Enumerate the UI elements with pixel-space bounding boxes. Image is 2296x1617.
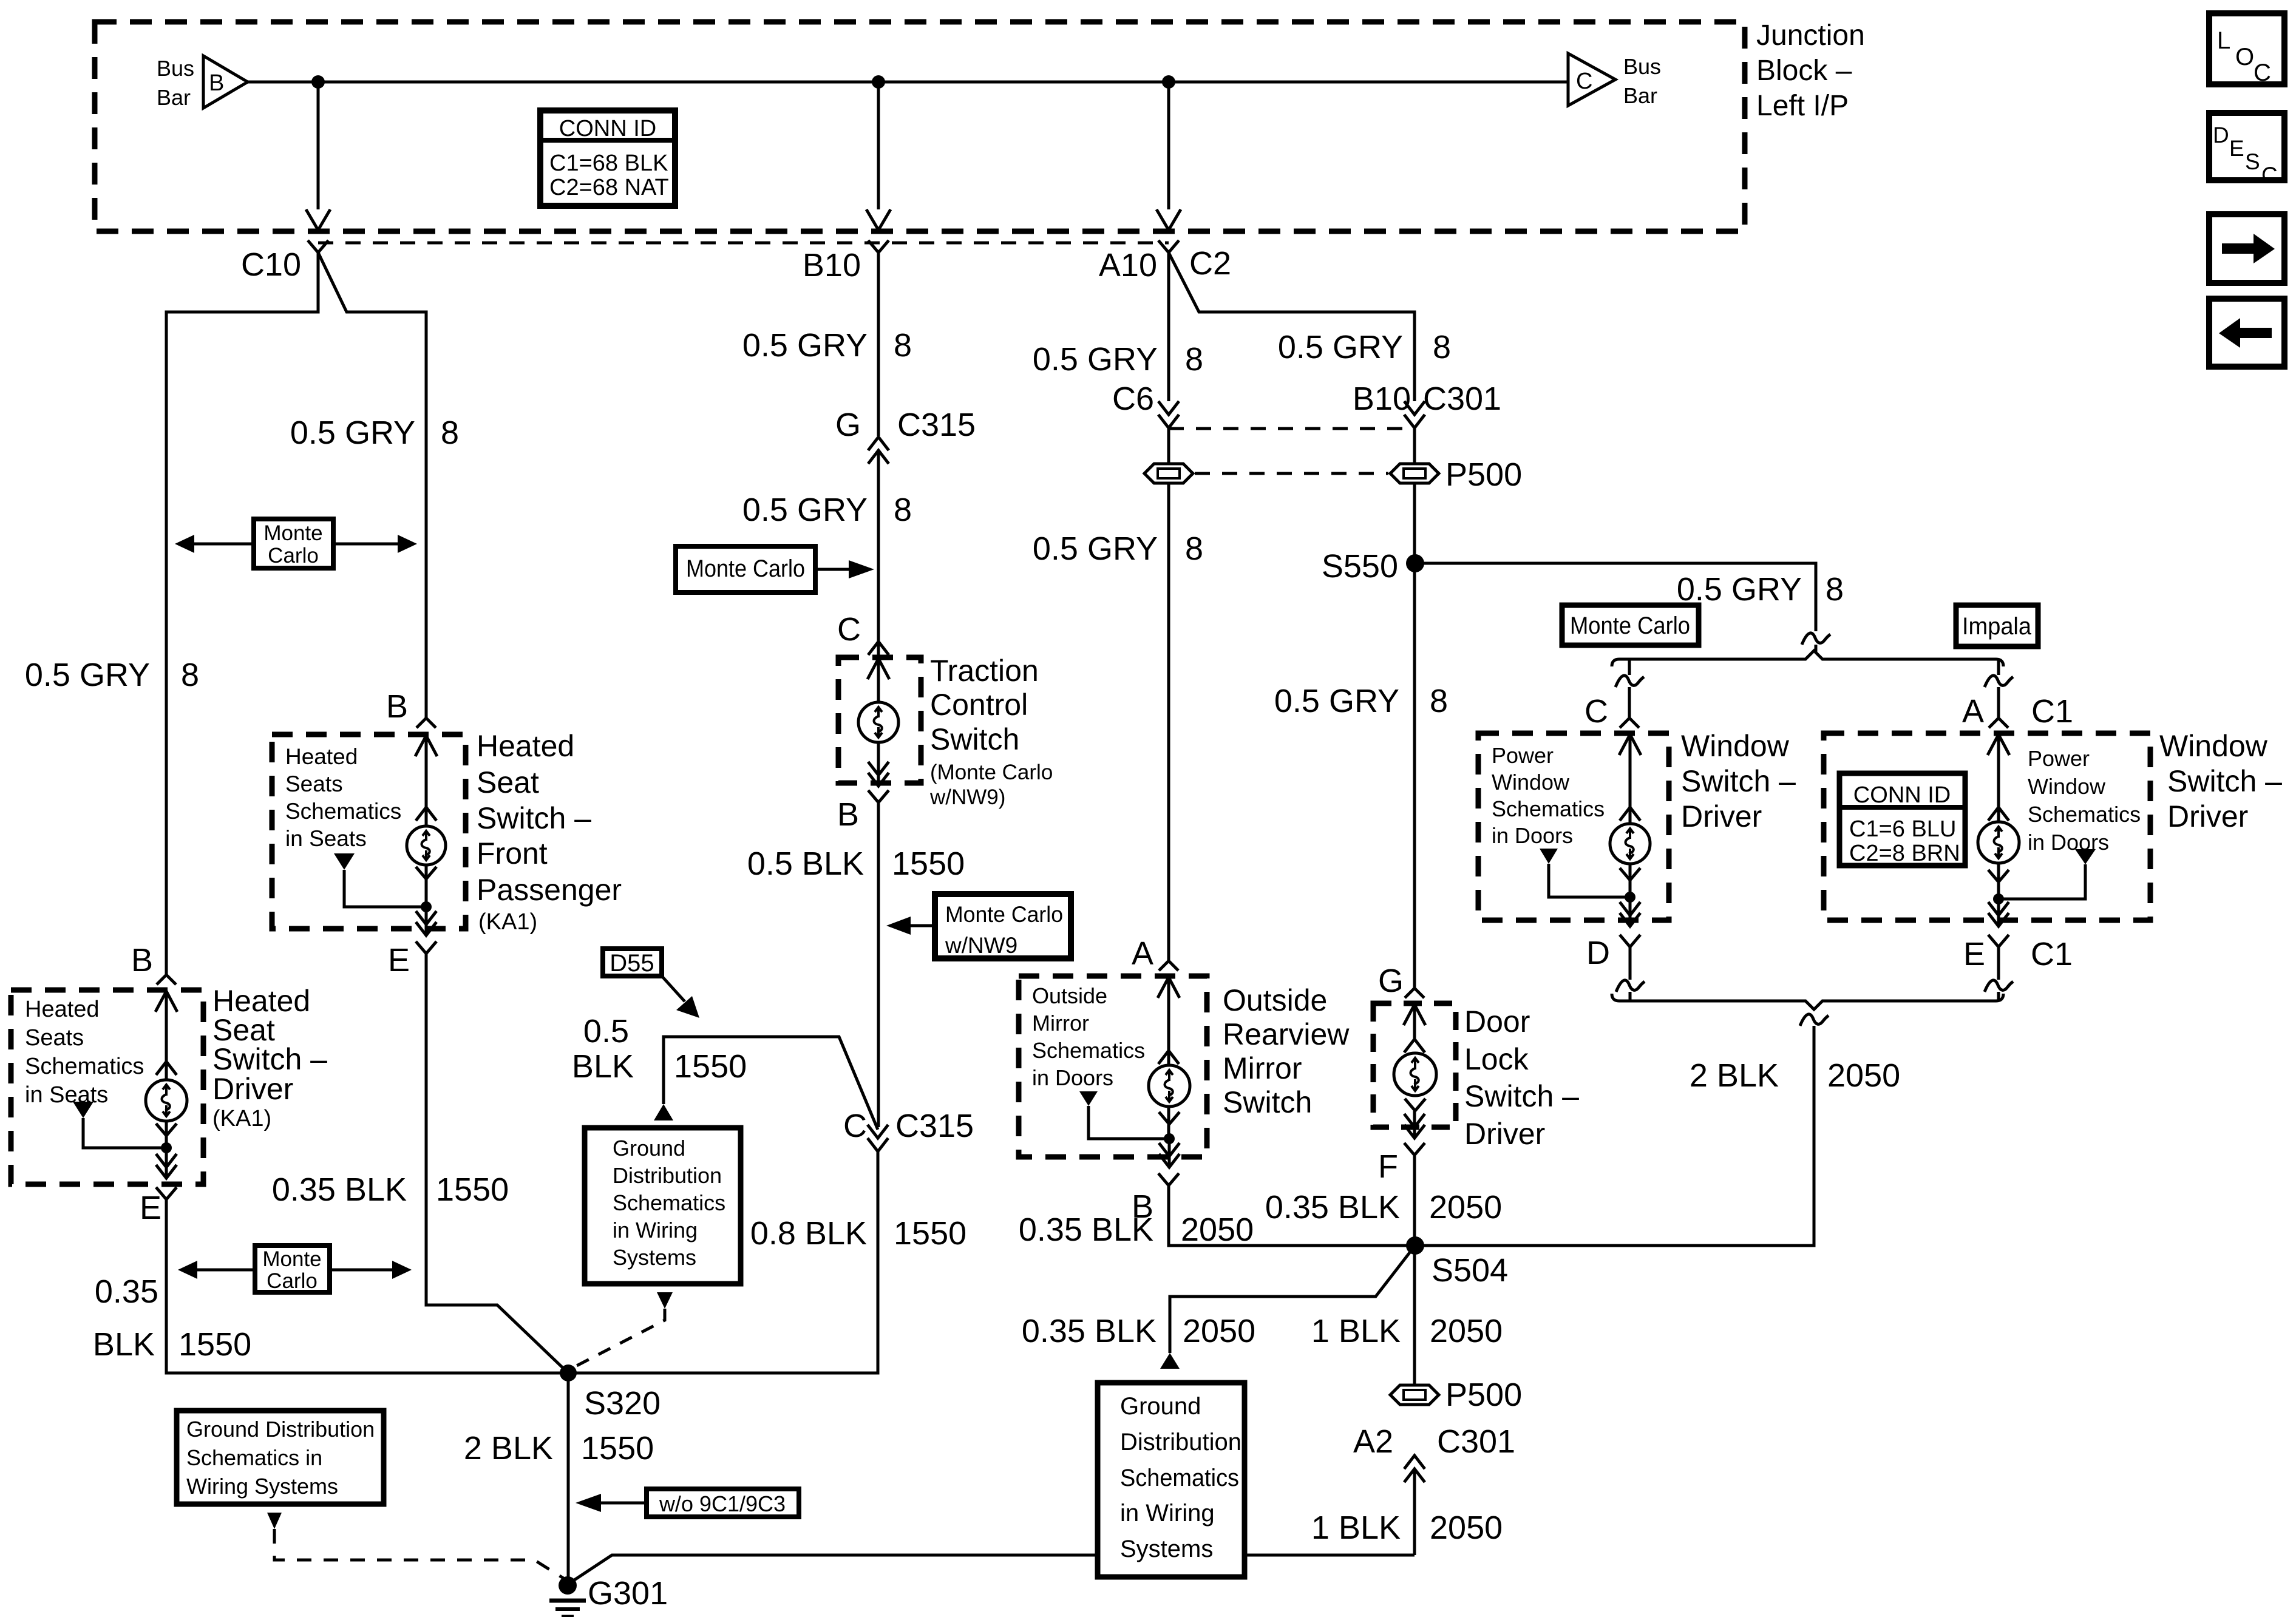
svg-text:0.5 GRY: 0.5 GRY [1278,329,1403,365]
svg-text:Carlo: Carlo [267,1269,318,1293]
svg-text:0.5 GRY: 0.5 GRY [1033,341,1158,378]
svg-text:Impala: Impala [1962,613,2032,640]
svg-text:B10: B10 [803,247,861,283]
svg-text:0.5 GRY: 0.5 GRY [1274,683,1399,719]
svg-text:D: D [1586,935,1610,971]
svg-text:Door: Door [1464,1005,1530,1039]
terminal A10 [1158,240,1179,253]
svg-text:B: B [209,70,224,96]
svg-text:E: E [388,942,410,978]
door lock switch dashed box [1373,1003,1456,1127]
dashed connector line C6-C301 [1169,427,1415,430]
svg-text:Systems: Systems [613,1245,696,1270]
svg-text:C: C [1584,693,1608,730]
svg-text:A: A [1962,693,1984,730]
dashed line between P500 [1195,472,1388,475]
svg-text:Wiring Systems: Wiring Systems [186,1474,338,1499]
Monte Carlo option arrow (upper left) [182,543,413,546]
svg-text:Carlo: Carlo [268,544,319,568]
Impala option box [1956,605,2038,646]
svg-text:Systems: Systems [1120,1536,1213,1562]
wire C10 split right diagonal [318,253,426,718]
svg-text:in Wiring: in Wiring [613,1218,698,1242]
svg-text:Junction: Junction [1756,19,1865,52]
svg-text:B10: B10 [1353,381,1411,417]
svg-text:Heated: Heated [285,744,358,769]
svg-text:Bar: Bar [1623,83,1657,108]
svg-text:8: 8 [1185,531,1203,567]
svg-text:Ground: Ground [1120,1393,1201,1420]
svg-text:0.35 BLK: 0.35 BLK [1265,1189,1400,1225]
window switch driver (Impala) dashed box [1824,733,2150,920]
svg-text:D: D [2213,123,2229,147]
grommet P500 (bottom) [1390,1385,1439,1405]
svg-text:Mirror: Mirror [1223,1051,1302,1085]
terminal B (front passenger) [416,718,436,728]
svg-text:Distribution: Distribution [1120,1429,1241,1456]
svg-text:(KA1): (KA1) [212,1106,271,1131]
wire drop to B10 [877,82,880,209]
D55 reference box [603,949,662,976]
svg-text:B: B [131,942,153,978]
internal wire (mirror) [1167,978,1170,1139]
wire 2 BLK 2050 [1415,1026,1814,1246]
CONN ID table [540,110,675,206]
svg-text:Schematics: Schematics [2028,802,2141,827]
svg-text:Schematics: Schematics [613,1190,725,1215]
svg-text:in Seats: in Seats [285,826,367,851]
svg-text:8: 8 [441,415,459,451]
terminal A (mirror) [1159,961,1178,971]
wire C2 split diagonal [1169,253,1415,401]
svg-text:Front: Front [477,836,548,870]
wire S320 to G301 [567,1373,570,1580]
svg-text:Switch –: Switch – [1681,764,1796,798]
internal wire (window Impala) [1997,735,2000,899]
wire A2 to ground run [1413,1469,1416,1555]
terminal E (front passenger) [416,941,436,954]
svg-text:L: L [2217,27,2230,54]
dashed leader to S320 [577,1309,665,1366]
internal wire (driver seat) [165,992,168,1148]
svg-text:Bar: Bar [157,85,191,110]
svg-text:C315: C315 [897,407,976,443]
svg-text:0.35: 0.35 [95,1273,158,1310]
svg-text:E: E [140,1190,161,1226]
exit chevrons (window MC) [1629,897,1632,926]
svg-text:Heated: Heated [25,997,100,1022]
svg-text:C1=6 BLU: C1=6 BLU [1849,816,1956,842]
traction control switch dashed box [838,657,921,783]
internal wire (front passenger) [425,736,428,907]
svg-text:C1=68 BLK: C1=68 BLK [549,151,668,176]
svg-text:0.5 GRY: 0.5 GRY [1033,531,1158,567]
wire C301 down [1413,428,1416,988]
C branch wire [1628,659,1631,675]
splice S550 [1406,554,1424,572]
svg-text:Monte: Monte [263,521,322,545]
svg-text:B: B [837,796,859,833]
svg-text:S: S [2245,149,2260,174]
svg-text:Outside: Outside [1032,983,1107,1008]
svg-text:8: 8 [894,327,912,364]
grommet P500 (right) [1390,464,1439,483]
svg-text:8: 8 [894,492,912,528]
reference triangle (center box) [657,1292,673,1309]
svg-text:1 BLK: 1 BLK [1311,1313,1401,1349]
svg-text:G: G [1378,963,1404,999]
svg-text:O: O [2235,44,2254,70]
svg-text:S550: S550 [1322,548,1398,585]
node at B10 drop [872,75,885,89]
svg-text:E: E [1963,936,1985,972]
svg-text:2 BLK: 2 BLK [464,1430,553,1466]
wire drop to C10 [317,82,320,209]
svg-text:C: C [843,1108,867,1144]
svg-text:1550: 1550 [892,846,965,882]
svg-text:Monte: Monte [262,1247,321,1271]
svg-text:1550: 1550 [581,1430,654,1466]
svg-text:Seats: Seats [285,771,343,796]
svg-text:Switch –: Switch – [2167,764,2282,798]
svg-text:Driver: Driver [1681,799,1762,833]
node at A10 drop [1162,75,1175,89]
grommet P500 (left) [1144,464,1193,483]
svg-text:Driver: Driver [212,1072,293,1106]
svg-text:Window: Window [1492,770,1570,795]
Monte Carlo option box (window) [1562,605,1699,645]
svg-text:0.5 GRY: 0.5 GRY [25,657,150,693]
svg-text:A10: A10 [1099,247,1157,283]
svg-text:1550: 1550 [436,1171,509,1208]
ground distribution schematics box (center) [585,1128,741,1284]
svg-text:Passenger: Passenger [477,873,622,907]
leader wire to ground reference [1170,1246,1415,1353]
reference triangle (mirror) [1079,1091,1098,1106]
svg-text:in Doors: in Doors [2028,830,2109,855]
splice S504 [1406,1236,1424,1255]
svg-text:BLK: BLK [93,1326,155,1363]
svg-text:2050: 2050 [1181,1212,1254,1248]
svg-text:C2: C2 [1189,245,1231,282]
svg-text:Window: Window [1681,729,1790,763]
svg-text:1550: 1550 [178,1326,251,1363]
switch symbol (window Impala) [1978,822,2019,863]
svg-text:C: C [2261,163,2278,188]
svg-text:Power: Power [2028,746,2090,771]
terminal C10 [308,240,328,253]
switch symbol (driver seat) [146,1080,187,1121]
svg-text:CONN ID: CONN ID [1853,782,1951,808]
svg-text:Ground: Ground [613,1136,685,1161]
svg-text:S504: S504 [1432,1252,1508,1289]
svg-text:C10: C10 [241,246,301,283]
svg-text:2050: 2050 [1429,1189,1502,1225]
svg-text:C: C [837,611,861,648]
svg-text:0.5 GRY: 0.5 GRY [742,492,868,528]
svg-text:in Doors: in Doors [1492,823,1573,848]
svg-text:w/NW9): w/NW9) [929,785,1005,809]
svg-text:Switch –: Switch – [212,1042,327,1076]
switch symbol (mirror) [1149,1065,1190,1107]
svg-text:C1: C1 [2031,936,2073,972]
exit chevrons (door lock) [1413,1111,1416,1138]
svg-text:Distribution: Distribution [613,1163,722,1188]
internal wire (window MC) [1629,735,1632,897]
svg-text:0.5 GRY: 0.5 GRY [290,415,415,451]
svg-text:8: 8 [1430,683,1448,719]
svg-text:C301: C301 [1437,1423,1515,1460]
svg-text:Window: Window [2028,774,2106,799]
heated seat switch driver dashed box [11,990,203,1184]
internal wire (traction) [877,659,880,701]
window switch driver (Monte Carlo) dashed box [1478,733,1669,920]
svg-text:Driver: Driver [1464,1117,1545,1151]
svg-text:8: 8 [181,657,199,693]
svg-text:C2=8 BRN: C2=8 BRN [1849,841,1960,866]
switch symbol (traction) [858,702,898,742]
svg-text:Monte Carlo: Monte Carlo [686,555,805,582]
exit chevrons (mirror) [1168,1139,1171,1167]
DESC icon box [2209,113,2284,180]
svg-text:C301: C301 [1423,381,1501,417]
internal node (driver seat) [161,1142,172,1153]
exit chevrons (driver seat) [165,1148,168,1178]
svg-text:in Wiring: in Wiring [1120,1500,1215,1527]
wire C10 split left [166,253,318,975]
outside rearview mirror switch dashed box [1019,976,1207,1157]
terminal D [1620,935,1640,947]
svg-text:0.35 BLK: 0.35 BLK [1022,1313,1156,1349]
terminal F (door lock) [1404,1143,1425,1155]
svg-text:Schematics: Schematics [1032,1038,1145,1063]
reference triangle (window Impala) [2075,849,2096,864]
CONN ID table (window Impala) [1839,773,1965,866]
svg-text:1550: 1550 [894,1215,966,1252]
svg-text:2 BLK: 2 BLK [1690,1057,1779,1094]
svg-text:C315: C315 [895,1108,974,1144]
reference triangle (front passenger) [334,853,355,870]
svg-text:8: 8 [1826,571,1844,608]
wire E driver to S320 run [166,1151,878,1373]
bus bar B triangle [203,56,248,108]
exit chevrons (window Impala) [1997,899,2000,926]
svg-text:CONN ID: CONN ID [559,116,656,141]
svg-text:C: C [1576,69,1592,94]
switch symbol (door lock) [1394,1053,1436,1096]
bus bar C triangle [1568,53,1615,106]
A branch wire [1997,659,2000,675]
wire S550 to window switches [1415,563,1816,631]
bus bar wire [248,81,1568,84]
exit chevrons (traction) [868,762,889,775]
svg-text:in Doors: in Doors [1032,1065,1113,1090]
svg-text:Control: Control [930,688,1028,722]
svg-text:G: G [835,407,861,443]
svg-text:Switch –: Switch – [477,801,591,835]
svg-text:2050: 2050 [1430,1313,1503,1349]
terminal E (driver seat) [156,1187,177,1199]
svg-text:0.5 BLK: 0.5 BLK [747,846,864,882]
svg-text:in Seats: in Seats [25,1082,108,1108]
svg-text:Switch –: Switch – [1464,1079,1579,1113]
svg-text:Ground Distribution: Ground Distribution [186,1417,375,1442]
svg-text:2050: 2050 [1827,1057,1900,1094]
wire 0.5 BLK 1550 to ground reference [664,1037,878,1130]
svg-text:Block –: Block – [1756,55,1852,87]
wire mirror B to S504 [1169,1185,1415,1246]
svg-text:E: E [2229,136,2244,161]
wire E to S320 [426,954,568,1373]
D55 leader arrow [662,976,685,1002]
wire to mirror switch [1167,428,1170,961]
svg-text:Left I/P: Left I/P [1756,90,1849,122]
Monte Carlo option arrow (traction feed) [815,568,850,571]
svg-text:F: F [1378,1148,1398,1185]
upper split brace [1612,651,2003,666]
svg-text:Lock: Lock [1464,1042,1529,1076]
LOC icon box [2209,13,2284,84]
heated seat switch front passenger dashed box [272,734,466,929]
internal node (window Impala) [1993,893,2004,904]
svg-text:(KA1): (KA1) [478,909,537,935]
left arrow icon box [2209,299,2284,367]
svg-text:Switch: Switch [1223,1085,1312,1119]
svg-text:0.35 BLK: 0.35 BLK [272,1171,407,1208]
svg-text:Heated: Heated [477,729,574,763]
svg-text:2050: 2050 [1183,1313,1255,1349]
wire B10 down [877,253,880,436]
connector C2 dashed line [318,242,1169,245]
terminal B10 [868,240,889,253]
internal node (front passenger) [421,901,432,912]
terminal B (traction) [868,790,889,802]
svg-text:Rearview: Rearview [1223,1017,1350,1051]
svg-text:P500: P500 [1445,456,1522,493]
svg-text:w/NW9: w/NW9 [945,933,1017,958]
svg-text:1550: 1550 [674,1048,747,1085]
switch symbol (front passenger) [407,826,446,865]
internal node (window MC) [1625,892,1635,903]
svg-text:A2: A2 [1353,1423,1393,1460]
wire F to S504 [1413,1155,1416,1386]
svg-text:Seat: Seat [477,765,539,799]
terminal G (door lock) [1405,988,1424,998]
svg-text:0.5: 0.5 [583,1013,629,1049]
reference triangle (window MC) [1540,849,1558,864]
svg-text:A: A [1132,935,1153,972]
ground distribution schematics box (bottom left) [177,1411,384,1504]
right arrow icon box [2209,214,2284,283]
svg-text:C2=68 NAT: C2=68 NAT [549,175,669,200]
svg-text:C1: C1 [2031,693,2073,730]
svg-text:Schematics: Schematics [1492,796,1605,821]
option box w/o 9C1/9C3 [598,1502,647,1505]
Monte Carlo option arrow (lower left) [185,1269,407,1272]
internal wire (door lock) [1413,1005,1416,1039]
svg-text:BLK: BLK [572,1048,634,1085]
internal node (mirror) [1164,1133,1175,1144]
Monte Carlo w/NW9 option box [909,924,935,927]
bottom return wire to G301 [572,1555,1415,1581]
svg-text:Schematics: Schematics [1120,1465,1239,1491]
node at C10 drop [311,75,325,89]
svg-text:(Monte Carlo: (Monte Carlo [930,761,1053,784]
svg-text:S320: S320 [584,1385,661,1422]
svg-text:8: 8 [1185,341,1203,378]
svg-text:Seats: Seats [25,1025,84,1051]
svg-text:8: 8 [1433,329,1451,365]
exit chevrons (front passenger) [425,907,428,935]
switch symbol (window MC) [1610,824,1650,864]
svg-text:Driver: Driver [2167,799,2248,833]
svg-text:C: C [2254,59,2271,86]
svg-text:0.5 GRY: 0.5 GRY [742,327,868,364]
terminal B (mirror) [1158,1173,1179,1185]
wire drop to A10 [1167,82,1170,209]
reference triangle (bottom left box) [267,1513,282,1529]
svg-text:Monte Carlo: Monte Carlo [945,902,1063,927]
svg-text:Schematics in: Schematics in [186,1445,322,1470]
svg-text:C6: C6 [1112,381,1154,417]
svg-text:Mirror: Mirror [1032,1011,1089,1036]
svg-text:Bus: Bus [157,56,194,81]
terminal B (driver seat) [157,975,176,985]
ground G301 [559,1576,577,1595]
dashed leader to G301 [274,1529,563,1578]
svg-text:P500: P500 [1445,1377,1522,1413]
reference triangle (driver seat) [73,1102,93,1118]
svg-text:Traction: Traction [930,654,1039,688]
svg-text:Power: Power [1492,743,1554,768]
terminal E C1 [1988,935,2009,947]
svg-text:w/o 9C1/9C3: w/o 9C1/9C3 [659,1491,786,1516]
wire A10 down [1167,253,1170,401]
svg-text:0.8 BLK: 0.8 BLK [750,1215,867,1252]
svg-text:Switch: Switch [930,722,1019,756]
splice S320 [560,1364,577,1381]
svg-text:B: B [386,688,408,725]
svg-text:0.35 BLK: 0.35 BLK [1019,1212,1153,1248]
svg-text:0.5 GRY: 0.5 GRY [1677,571,1802,608]
svg-text:Outside: Outside [1223,983,1327,1017]
svg-text:Schematics: Schematics [285,799,401,824]
svg-text:Bus: Bus [1623,54,1661,79]
svg-text:Schematics: Schematics [25,1054,144,1079]
svg-text:2050: 2050 [1430,1510,1503,1546]
wire traction B down [877,802,880,1127]
svg-text:Monte Carlo: Monte Carlo [1570,612,1690,639]
svg-text:D55: D55 [610,950,654,977]
lower split brace [1612,994,2003,1009]
svg-text:1 BLK: 1 BLK [1311,1510,1401,1546]
svg-text:Window: Window [2159,729,2268,763]
junction block J1 dashed outline [95,22,1745,231]
wire C315 to traction switch [877,450,880,659]
svg-text:G301: G301 [588,1575,668,1612]
ground distribution schematics box (bottom right) [1098,1383,1245,1577]
